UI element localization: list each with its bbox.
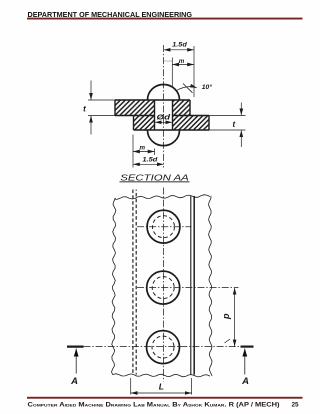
cutting plane line A-A bbox=[84, 346, 241, 348]
hatch top plate left of hole bbox=[115, 100, 155, 116]
svg-text:A: A bbox=[70, 376, 78, 387]
rivet hole 2 (middle) outer bbox=[147, 271, 180, 304]
dim t (left) bbox=[88, 100, 115, 116]
rivet hole 2 inner (dashed) bbox=[152, 277, 174, 299]
top plate outline bbox=[115, 100, 190, 116]
right break (wavy) bbox=[209, 196, 213, 376]
plan labels bbox=[70, 313, 249, 392]
section labels bbox=[83, 42, 235, 183]
dim 1.5d (bottom) bbox=[133, 163, 164, 165]
bottom plate outline bbox=[134, 116, 210, 131]
svg-text:t: t bbox=[83, 104, 86, 113]
m leader stub bbox=[164, 60, 172, 62]
section arrow left bbox=[75, 349, 77, 374]
vertical centerline through rivets bbox=[162, 188, 164, 382]
footer rule bbox=[27, 397, 303, 399]
svg-text:10°: 10° bbox=[202, 83, 212, 91]
visible plate edge (solid pair) bbox=[190, 196, 192, 375]
rivet centerline bbox=[163, 45, 165, 168]
rivet top head bbox=[148, 85, 180, 100]
section arrow right bbox=[244, 349, 246, 375]
svg-text:Computer Aided Machine Drawing: Computer Aided Machine Drawing Lab Manua… bbox=[28, 402, 280, 409]
dim Od arrows bbox=[155, 121, 172, 123]
dim t (right) bbox=[209, 116, 246, 131]
dim m (top) bbox=[171, 58, 173, 88]
svg-text:m: m bbox=[179, 58, 185, 65]
hatch bottom plate left of hole bbox=[134, 116, 155, 131]
dim p bbox=[234, 288, 236, 347]
rivet hole 3 inner (dashed) bbox=[152, 336, 174, 358]
rivet hole 3 (bottom) outer bbox=[147, 331, 180, 364]
svg-text:SECTION AA: SECTION AA bbox=[120, 172, 189, 182]
hatch bottom plate right of hole bbox=[173, 116, 210, 131]
rivet hole 1 (top) outer bbox=[147, 210, 180, 243]
svg-text:1.5d: 1.5d bbox=[142, 156, 158, 163]
header rule bbox=[27, 18, 303, 20]
svg-text:DEPARTMENT OF MECHANICAL ENGIN: DEPARTMENT OF MECHANICAL ENGINEERING bbox=[28, 10, 193, 19]
svg-text:Ød: Ød bbox=[157, 113, 171, 122]
angle 10 deg: leader arc bbox=[177, 87, 197, 91]
svg-text:m: m bbox=[139, 144, 145, 151]
small tick near p bottom arrow bbox=[225, 339, 231, 343]
SECTION AA underline bbox=[120, 180, 190, 183]
angle 10 deg: tick line bbox=[183, 84, 193, 93]
hatch top plate right of hole bbox=[173, 100, 191, 116]
dim m (bottom) bbox=[132, 135, 134, 168]
left break (wavy) bbox=[112, 198, 116, 375]
rivet hole edges bbox=[155, 100, 173, 130]
rivet 1 horizontal centerline bbox=[137, 226, 192, 228]
svg-text:1.5d: 1.5d bbox=[172, 42, 188, 49]
top break (wavy) bbox=[114, 195, 210, 200]
svg-text:25: 25 bbox=[292, 402, 300, 409]
hidden plate edge (dashed pair) bbox=[132, 190, 134, 375]
rivet bottom head bbox=[148, 130, 180, 145]
bottom break (wavy) bbox=[113, 374, 210, 377]
rivet hole 1 inner (dashed) bbox=[153, 216, 175, 238]
svg-text:L: L bbox=[159, 382, 164, 392]
dim 1.5d (top) bbox=[193, 46, 195, 97]
svg-text:A: A bbox=[241, 376, 249, 387]
rivet 2 horizontal centerline / p extension bbox=[137, 287, 239, 289]
dim L bbox=[131, 378, 192, 395]
svg-text:p: p bbox=[221, 313, 231, 320]
svg-text:t: t bbox=[232, 120, 235, 129]
